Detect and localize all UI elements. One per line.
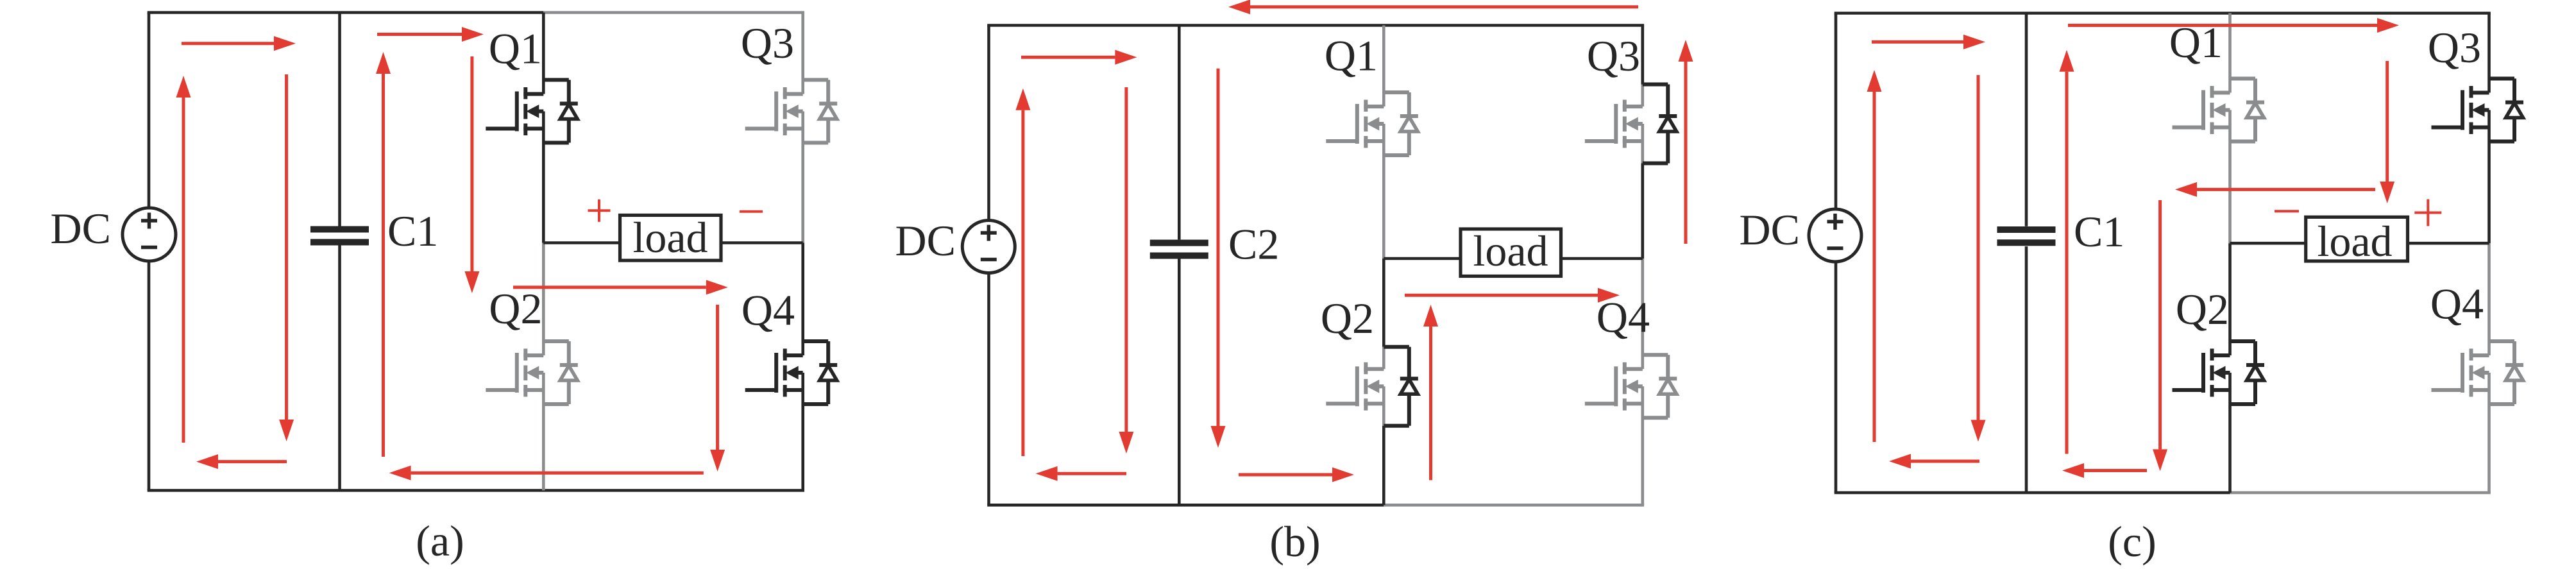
svg-text:Q2: Q2 bbox=[2176, 285, 2229, 334]
svg-text:C1: C1 bbox=[2074, 207, 2124, 256]
svg-text:Q4: Q4 bbox=[741, 286, 795, 335]
svg-text:Q1: Q1 bbox=[489, 24, 542, 73]
svg-text:Q4: Q4 bbox=[2430, 280, 2484, 328]
svg-text:load: load bbox=[632, 213, 708, 262]
svg-text:DC: DC bbox=[895, 216, 956, 265]
svg-text:Q2: Q2 bbox=[489, 284, 542, 333]
svg-text:DC: DC bbox=[51, 204, 111, 253]
svg-text:(b): (b) bbox=[1269, 517, 1320, 566]
svg-text:Q1: Q1 bbox=[1325, 31, 1378, 80]
svg-text:(c): (c) bbox=[2108, 517, 2156, 566]
svg-text:Q3: Q3 bbox=[2428, 23, 2481, 72]
svg-text:Q3: Q3 bbox=[741, 19, 794, 67]
svg-text:load: load bbox=[2317, 217, 2392, 266]
svg-text:C1: C1 bbox=[387, 207, 438, 255]
svg-text:Q3: Q3 bbox=[1587, 31, 1640, 80]
svg-text:DC: DC bbox=[1740, 205, 1800, 254]
svg-text:Q2: Q2 bbox=[1321, 294, 1374, 343]
svg-text:(a): (a) bbox=[416, 516, 464, 565]
svg-text:load: load bbox=[1473, 226, 1548, 275]
svg-text:C2: C2 bbox=[1228, 220, 1279, 269]
